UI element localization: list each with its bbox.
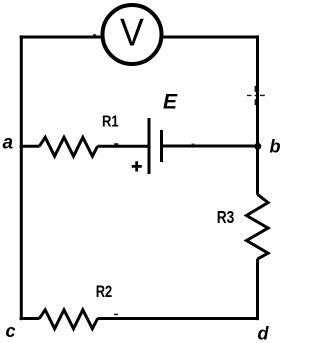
svg-text:V: V (120, 10, 144, 53)
svg-text:c: c (6, 321, 16, 341)
svg-text:R2: R2 (96, 283, 113, 301)
svg-text:b: b (270, 137, 281, 157)
svg-text:d: d (258, 323, 270, 343)
svg-text:E: E (163, 90, 178, 113)
svg-text:R3: R3 (217, 207, 235, 227)
svg-text:a: a (3, 133, 14, 154)
svg-text:R1: R1 (102, 113, 119, 130)
